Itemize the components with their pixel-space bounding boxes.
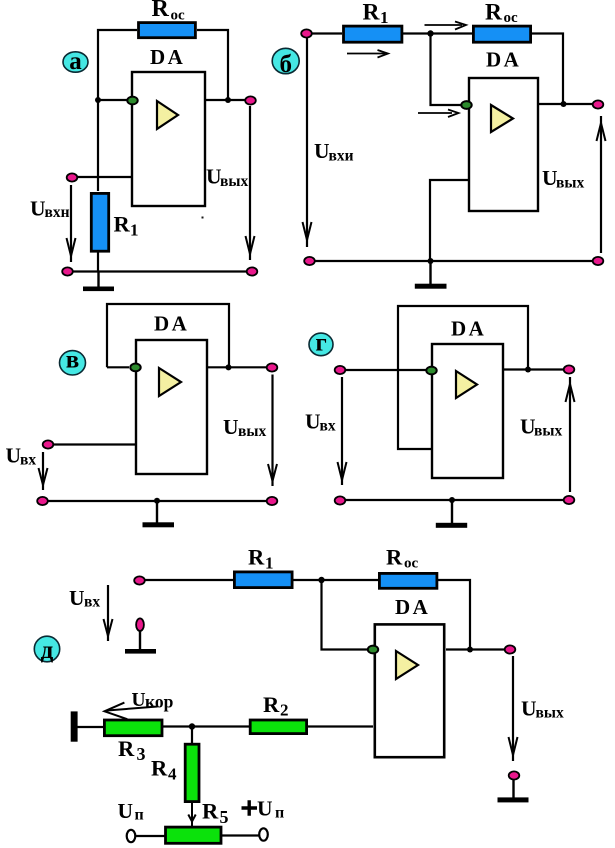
svg-text:U: U [257,797,273,821]
wire R3 to R2 (d) [163,725,249,727]
resistor R3 (d) [104,720,162,736]
arrow Uвых up (b) [597,116,606,253]
junction dot between R1 Roc (b) [427,30,433,36]
svg-text:R: R [248,545,265,570]
node input pink (v) [43,440,54,448]
node minus input green (v) [130,364,140,372]
svg-text:1: 1 [380,8,389,27]
wire feedback to minus node (v) [107,366,129,368]
svg-text:R: R [485,0,503,26]
svg-text:U: U [223,415,239,439]
svg-text:вх: вх [84,594,100,611]
op-amp DA (b) body [469,78,538,211]
junction dot output (d) [467,647,473,653]
node rail left pink (a) [62,267,73,275]
wire op-amp output (a) [205,99,245,101]
node input pink (d) [134,576,145,584]
node rail left pink (g) [335,496,346,504]
svg-text:ос: ос [404,556,419,572]
svg-text:U: U [521,697,537,721]
wire bottom rail (b) [309,260,598,262]
svg-text:R: R [202,799,219,824]
op-amp DA (a) body [132,72,205,206]
op-amp DA (v) triangle [159,368,181,396]
wire bottom rail (g) [340,499,569,501]
svg-text:U: U [314,139,330,163]
terminal circle left (d) [127,830,136,842]
label circle д [34,636,59,664]
wire wall to R3 (d) [78,726,104,728]
label circle г [309,330,333,357]
arrow Uвх down (g) [338,377,347,485]
resistor Roc (d) [379,573,437,588]
node output pink (d) [505,645,516,653]
op-amp DA (a) triangle [157,101,178,129]
wire Roc right to output (a) [197,30,228,100]
resistor R1 (a) [91,193,108,251]
wire R2 to op-amp plus input (d) [308,725,373,727]
svg-text:R: R [386,545,403,570]
junction dot after R1 (d) [318,577,324,583]
svg-text:вх: вх [20,452,36,469]
wire junction to R4 (d) [191,727,193,744]
wire junction to op-amp minus input (a) [98,99,127,101]
node input pink (a) [67,173,78,181]
wire op-amp output (d) [446,648,505,650]
arrow Uвых down (d) [509,656,518,761]
label circle а [63,48,88,75]
node rail right pink (v) [267,497,278,505]
wire input to plus input (a) [77,176,132,178]
arrow Uвхн down (a) [67,185,76,262]
svg-text:R: R [114,212,131,237]
wire junction down to minus input (b) [431,34,462,106]
node rail right pink (b) [593,257,604,265]
wire op-amp output (v) [207,366,267,368]
wire R1 to Roc (b) [403,32,472,34]
wire plus input to ground column (b) [430,180,469,261]
node minus input green (b) [461,101,471,109]
wire R1 to Roc (d) [293,579,378,581]
wire Roc right to output (b) [532,34,563,105]
svg-text:а: а [69,48,82,75]
junction dot R3 R4 R2 (d) [189,723,195,729]
svg-text:R: R [152,0,170,22]
speck artifact below op-amp (a) [202,217,204,219]
wire feedback loop (g) [398,306,528,449]
wire op-amp output (g) [503,368,564,370]
ground under input (d) [125,631,156,654]
arrow Uкор left (d) [105,703,158,720]
junction dot rail (v) [154,498,160,504]
wire op-amp output (b) [538,103,593,105]
svg-text:вых: вых [536,705,564,722]
node pink above ground right (d) [509,771,520,779]
svg-text:R: R [363,0,381,26]
terminal circle right (d) [259,828,268,840]
svg-text:1: 1 [130,221,139,240]
node output pink (b) [593,100,604,108]
arrow R4 to R5 wiper (d) [188,803,195,826]
svg-text:б: б [279,51,292,78]
svg-text:R: R [263,692,280,717]
junction dot output (v) [226,364,232,370]
label +Uп (d) [242,800,258,815]
svg-text:1: 1 [265,554,274,573]
op-amp DA (b) triangle [491,105,513,132]
node minus input green (a) [127,97,137,105]
svg-text:DA: DA [486,48,521,72]
wire input to plus input (v) [53,443,136,445]
svg-text:ос: ос [171,8,186,24]
svg-text:вых: вых [556,175,584,192]
arrow current into input (b) [418,110,459,118]
svg-text:кор: кор [145,692,174,712]
wire R1 bottom to rail (a) [97,252,99,271]
wire feedback loop (v) [107,304,229,367]
wall bar left (d) [71,711,78,741]
node pink above ground (d) [136,618,144,631]
ground (g) [436,500,467,528]
junction dot output (g) [525,367,531,373]
svg-text:ос: ос [504,10,519,26]
svg-text:U: U [118,799,134,823]
svg-text:5: 5 [220,807,229,827]
wire input to R1 (b) [311,32,342,34]
wire bottom rail (v) [42,500,272,502]
arrow current above wire (b) [425,22,467,30]
svg-text:DA: DA [451,317,486,341]
arrow Uвых down (a) [246,106,255,260]
label circle в [60,347,86,375]
arrow Uвх down (d) [104,585,113,641]
svg-text:R: R [151,756,168,781]
svg-text:г: г [315,330,326,357]
node output pink (v) [267,363,278,371]
svg-text:R: R [118,736,135,761]
wire input to R1 (d) [145,579,233,581]
ground under output (d) [498,779,529,802]
node rail left pink (b) [304,257,315,265]
resistor R5 (d) [166,827,222,843]
svg-text:в: в [66,347,80,374]
arrow current below R1 (b) [347,50,388,58]
op-amp DA (d) triangle [396,651,418,679]
node minus input green (g) [426,367,436,375]
junction dot rail (b) [428,258,434,264]
wire vertical down to R1 (a) [97,100,99,191]
resistor Roc (a) [139,23,196,38]
junction dot rail (g) [449,497,455,503]
svg-text:DA: DA [150,45,185,69]
wire Roc left to inverting node (a) [98,30,137,100]
node output pink (g) [564,365,575,373]
wire junction down to minus input (d) [322,580,368,650]
junction dot output (b) [561,101,567,107]
node output pink (a) [245,96,256,104]
node input pink (g) [335,366,346,374]
svg-text:вхн: вхн [45,204,70,221]
svg-text:U: U [6,444,22,468]
junction dot (a) inverting [95,97,101,103]
op-amp DA (g) body [432,344,503,478]
arrow Uвых down (v) [268,375,277,487]
wire left vertical Uвхи (b) [303,38,312,247]
resistor R1 (b) [344,26,402,42]
svg-text:п: п [135,807,144,824]
ground (b) [415,261,447,289]
arrow Uвых up (g) [566,377,575,492]
wire Roc right to output (d) [438,580,470,650]
svg-text:3: 3 [137,744,146,764]
svg-text:U: U [69,586,85,610]
wire input to minus node (g) [345,369,426,371]
svg-text:4: 4 [168,765,177,784]
ground (a) [83,271,114,291]
node rail left pink (v) [37,497,48,505]
svg-text:п: п [275,805,284,822]
resistor R1 (d) [234,572,292,588]
svg-text:вх: вх [320,418,336,435]
resistor R4 (d) [185,744,199,801]
svg-text:DA: DA [154,312,189,336]
junction dot output (a) [225,97,231,103]
node minus input green (d) [368,646,378,654]
svg-text:д: д [41,637,54,664]
svg-text:вхи: вхи [329,148,354,165]
op-amp DA (g) triangle [456,371,477,398]
svg-text:U: U [305,410,321,434]
node rail right pink (g) [564,496,575,504]
resistor Roc (b) [473,26,530,42]
svg-text:вых: вых [238,423,266,440]
op-amp DA (v) body [136,340,207,474]
wire terminal left to R5 (d) [135,835,165,837]
ground (v) [143,501,175,527]
label circle б [272,48,299,78]
resistor R2 (d) [250,720,306,734]
svg-text:U: U [30,197,46,221]
node rail right pink (a) [247,267,258,275]
svg-text:2: 2 [280,701,289,720]
arrow Uвх down (v) [39,452,48,490]
wire R5 to terminal right (d) [222,834,259,836]
op-amp DA (d) body [375,624,444,757]
wire bottom rail (a) [67,270,252,272]
svg-text:вых: вых [220,173,248,190]
svg-text:вых: вых [534,423,562,440]
node input pink (b) [301,29,312,37]
svg-text:DA: DA [395,595,430,619]
